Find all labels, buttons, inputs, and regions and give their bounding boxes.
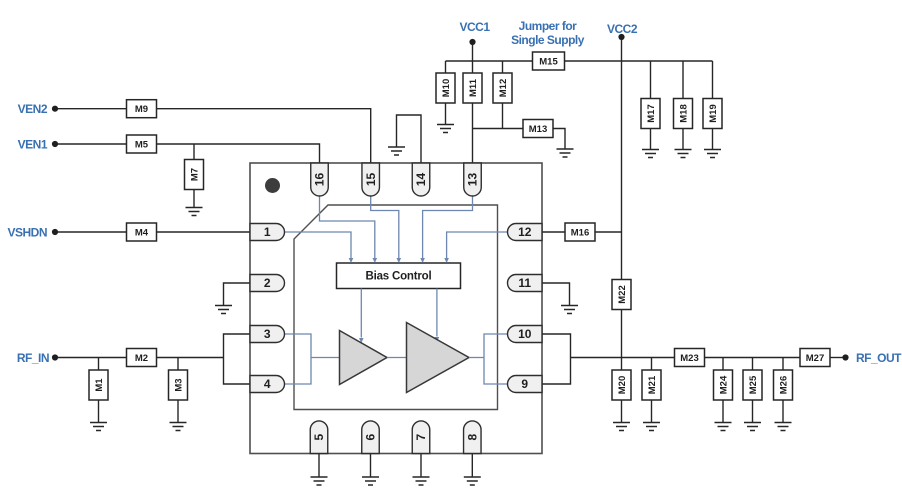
wire pin 7 to ground [420,454,422,478]
arrow into bias control 1 [349,258,354,263]
wire pin 12 to M16 [542,231,565,233]
wire VEN1 to M5 [58,143,127,145]
wire output bracket to M23 [571,357,675,359]
wire M26 to ground [782,400,784,423]
component M12 [493,73,512,103]
bias control block [337,263,461,289]
wire VEN2 to M9 [58,108,127,110]
pin 16 [311,163,329,196]
wire M10 to ground [445,103,447,125]
component M1 [89,370,108,400]
wire pin 6 to ground [370,454,372,478]
wire M26 tap [782,358,784,371]
pin 10 [508,326,543,343]
svg-text:14: 14 [414,173,428,187]
svg-text:1: 1 [264,225,271,239]
pin 13 [464,163,482,196]
wire pin 15 to bias control [371,195,399,259]
wire M21 tap [651,358,653,371]
svg-text:M24: M24 [718,375,729,394]
pin 4 [250,376,285,393]
ground pin 5 [311,477,328,485]
component M20 [612,370,631,400]
ground M19 [704,150,721,158]
component M11 [463,73,482,103]
svg-text:VCC1: VCC1 [459,20,490,34]
wire amplifier A1 to amplifier A2 [387,357,407,359]
component M7 [185,160,204,190]
wire M22 down to output line [621,310,623,371]
IC package body U1 [250,163,542,454]
svg-text:8: 8 [466,434,480,441]
ground M7 [186,208,203,216]
component M2 [127,349,157,367]
component M4 [127,223,157,241]
svg-text:M5: M5 [135,139,149,150]
pin 14 [412,163,430,196]
svg-text:M13: M13 [529,124,547,135]
wire M3 to ground [177,400,179,423]
wire pins 3 and 4 to amplifier input [285,334,312,384]
wire M12 down to M13 row [502,103,504,129]
svg-text:RF_IN: RF_IN [17,351,49,365]
wire M7 to ground [193,190,195,208]
component M18 [674,99,693,129]
wire M24 tap [722,358,724,371]
svg-text:M25: M25 [748,375,759,394]
ground M17 [642,150,659,158]
wire M9 to pin 15 [157,109,371,163]
wire VCC1 bus left [446,60,533,62]
svg-text:M20: M20 [617,376,628,394]
wire M25 to ground [752,400,754,423]
pin 9 [508,376,543,393]
component M24 [714,370,733,400]
svg-text:6: 6 [364,434,378,441]
component M17 [641,99,660,129]
wire M18 lead [682,61,684,99]
pin 11 [508,275,543,292]
wire VCC2 down to M22 [621,40,623,280]
svg-text:16: 16 [313,173,327,187]
component M13 [523,120,553,138]
svg-text:Jumper for: Jumper for [519,19,578,33]
wire M23 to M27 [705,357,801,359]
component M5 [127,135,157,153]
pin 12 [508,224,543,241]
svg-text:4: 4 [264,377,271,391]
svg-text:M27: M27 [806,353,824,364]
wire M13 to ground [553,129,565,150]
arrow into amplifier A2 [435,337,440,342]
pin 8 [464,421,482,454]
component M23 [675,349,705,367]
svg-text:M7: M7 [189,168,200,181]
svg-text:M18: M18 [678,104,689,122]
wire M19 to ground [712,129,714,150]
pin 2 [250,275,285,292]
arrow into amplifier A1 [359,338,364,343]
wire pin 11 to ground [542,283,570,306]
wire bias control to amplifier A1 [360,289,362,338]
wire M15 bus right [565,60,713,62]
wire pin 12 to bias control [447,232,508,258]
component M16 [565,223,595,241]
wire M1 to ground [98,400,100,423]
wire pin 8 to ground [471,454,473,478]
wire M20 to ground [621,400,623,423]
arrow into bias control 2 [373,258,378,263]
amplifier A1 [340,331,388,385]
wire M3 tap [177,358,179,371]
ground pin 8 [464,477,481,485]
ground M25 [744,423,761,431]
svg-text:M16: M16 [571,227,589,238]
ground M24 [715,423,732,431]
ground M13 [557,149,574,157]
svg-text:M11: M11 [468,78,479,97]
wire M19 lead [712,61,714,99]
wire M7 tap [193,144,195,160]
ground M18 [675,150,692,158]
ground pin 6 [362,477,379,485]
wire M2 to input bracket [157,357,224,359]
component M25 [743,370,762,400]
svg-text:9: 9 [521,377,528,391]
svg-text:VEN1: VEN1 [18,137,48,151]
svg-text:M4: M4 [135,227,149,238]
die outline (inner box with chamfer) [294,205,498,410]
svg-text:VCC2: VCC2 [607,22,638,36]
svg-text:VSHDN: VSHDN [7,225,47,239]
wire M17 to ground [650,129,652,150]
svg-text:M26: M26 [778,376,789,394]
wire M1 tap [98,358,100,371]
component M19 [703,99,722,129]
svg-text:3: 3 [264,327,271,341]
wire pin 1 to bias control [285,232,352,258]
arrow into bias control 3 [397,258,402,263]
svg-text:M22: M22 [617,285,628,303]
wire RF_IN to M2 [58,357,127,359]
component M22 [612,280,631,310]
wire M4 to pin 1 [157,231,251,233]
pin 5 [310,421,328,454]
wire M5 to pin 16 [157,144,320,163]
svg-text:M10: M10 [441,79,452,97]
ground pin 7 [413,477,430,485]
pin 3 [250,326,285,343]
svg-text:10: 10 [518,327,532,341]
wire pin 13 to bias control [423,195,473,259]
svg-text:11: 11 [518,276,531,290]
wire M10 lead [445,61,447,73]
pin 7 [412,421,430,454]
wire M11 to pin 13 [472,103,474,163]
svg-text:M3: M3 [173,378,184,391]
ground M3 [170,423,187,431]
component M3 [169,370,188,400]
wire M21 to ground [651,400,653,423]
pin 6 [362,421,380,454]
wire pin 14 to ground [397,115,422,163]
svg-text:M23: M23 [680,353,698,364]
ground M1 [90,423,107,431]
component M9 [127,100,157,118]
wire VSHDN to M4 [58,231,127,233]
svg-text:Bias Control: Bias Control [366,271,432,283]
component M26 [774,370,793,400]
pin-1 marker dot [265,178,280,193]
wire VCC1 down to M11 [472,45,474,74]
svg-text:M21: M21 [647,375,658,394]
wire M24 to ground [722,400,724,423]
wire M17 lead [650,61,652,99]
svg-text:5: 5 [312,434,326,441]
svg-text:M17: M17 [646,104,657,122]
wire pin 16 to bias control [320,195,375,259]
svg-text:M2: M2 [135,353,148,364]
wire M18 to ground [682,129,684,150]
wire M16 to VCC2 line [595,231,622,233]
svg-text:VEN2: VEN2 [18,102,48,116]
svg-text:M1: M1 [94,378,105,392]
svg-text:13: 13 [466,173,480,187]
svg-text:M19: M19 [708,104,719,122]
component M27 [800,349,830,367]
wire bias control to amplifier A2 [436,289,438,337]
arrow into bias control 5 [444,258,449,263]
pin 1 [250,224,285,241]
pin 15 [362,163,380,196]
wire pin 5 to ground [318,454,320,478]
wire junction row to M13 [473,128,524,130]
component M15 [533,52,565,70]
ground M20 [613,423,630,431]
wire M25 tap [752,358,754,371]
svg-text:RF_OUT: RF_OUT [856,351,902,365]
svg-text:M15: M15 [539,56,558,67]
wire output bracket pins 10 and 9 [542,334,571,384]
amplifier A2 [407,323,470,393]
svg-text:7: 7 [414,434,428,441]
svg-text:15: 15 [364,173,378,187]
svg-text:12: 12 [518,225,532,239]
wire amplifier A2 output to pins 10 and 9 [469,357,484,359]
ground M21 [643,423,660,431]
wire input bracket to pins 3 and 4 [224,334,251,384]
svg-text:Single Supply: Single Supply [511,33,585,47]
svg-text:2: 2 [264,276,271,290]
component M21 [642,370,661,400]
ground pin 11 [561,306,578,314]
component M10 [436,73,455,103]
wire pin 2 to ground [224,283,251,306]
svg-text:M9: M9 [135,104,148,115]
ground pin 14 [388,147,405,155]
node RF_OUT [842,354,848,360]
arrow into bias control 4 [420,258,425,263]
ground M26 [775,423,792,431]
wire M12 top lead [502,61,504,73]
wire M27 to RF_OUT [830,357,843,359]
ground pin 2 [215,306,232,314]
svg-text:M12: M12 [498,79,509,97]
ground M10 [437,125,454,133]
